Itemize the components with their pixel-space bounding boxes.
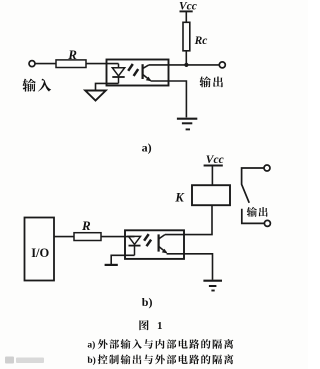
svg-text:a): a): [142, 140, 152, 154]
svg-text:I/O: I/O: [31, 246, 49, 260]
svg-text:Vcc: Vcc: [179, 0, 197, 12]
svg-text:b): b): [87, 355, 95, 366]
svg-text:a): a): [87, 340, 95, 351]
svg-text:R: R: [81, 218, 91, 233]
svg-text:R: R: [67, 47, 77, 62]
svg-text:Vcc: Vcc: [206, 154, 224, 166]
svg-text:b): b): [142, 295, 153, 309]
svg-text:1: 1: [157, 320, 163, 332]
svg-text:Rc: Rc: [194, 35, 208, 47]
